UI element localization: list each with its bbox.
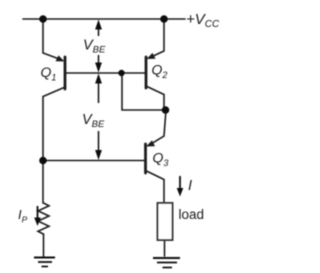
svg-text:Q1: Q1 [41, 64, 57, 82]
annotation arrow: upper VBE down-arrow to base line [95, 55, 102, 73]
transistor Q3 [146, 110, 167, 203]
svg-text:load: load [179, 207, 205, 222]
junction dot: rail right (Q2 emitter) [160, 15, 168, 23]
annotation arrow: lower VBE up-arrow to base line [95, 74, 102, 104]
wire: load bottom to ground [164, 240, 166, 256]
svg-text:Q3: Q3 [153, 150, 169, 168]
load resistor box [158, 203, 173, 240]
svg-text:Q2: Q2 [152, 62, 168, 80]
wire: node A horizontal line (Q1 collector to Q3 base) [43, 160, 144, 162]
wire: common base line Q1-Q2 [66, 72, 145, 74]
junction dot: rail left (Q1 emitter) [39, 15, 47, 23]
annotation arrow: load current I arrow [177, 176, 184, 197]
resistor Ip current source [38, 161, 49, 257]
ground: left (below Ip resistor) [34, 258, 55, 267]
svg-text:VBE: VBE [82, 112, 105, 130]
junction dot: Q2 collector / Q3 emitter node [162, 106, 170, 114]
annotation arrow: Ip current arrow [34, 206, 41, 226]
svg-text:IP: IP [18, 207, 28, 225]
annotation arrow: upper VBE up-arrow to rail [95, 20, 102, 37]
annotation arrow: lower VBE down-arrow to node A line [95, 131, 102, 160]
wire: L-link base line to Q2 collector node [122, 73, 165, 110]
transistor Q1 [43, 19, 65, 161]
svg-text:VBE: VBE [83, 38, 106, 56]
ground: right (below load) [153, 258, 180, 268]
svg-text:+VCC: +VCC [186, 11, 220, 30]
wire: +Vcc top supply rail [23, 18, 185, 20]
junction dot: node A [39, 157, 47, 165]
junction dot: base line / L-link [118, 70, 124, 76]
transistor Q2 [146, 19, 164, 110]
svg-text:I: I [188, 178, 192, 194]
